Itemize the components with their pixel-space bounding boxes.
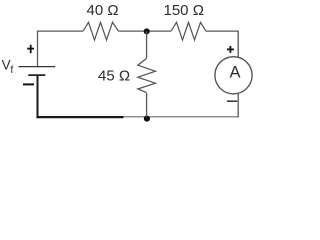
ammeter A circle: [215, 57, 252, 94]
wire top-middle: [119, 30, 172, 32]
svg-text:A: A: [229, 64, 240, 82]
wire top-right: [206, 31, 238, 57]
node junction bottom: [144, 116, 150, 122]
resistor R1 40ohm: [83, 22, 119, 40]
svg-text:45 Ω: 45 Ω: [98, 67, 130, 84]
ammeter plus sign: [227, 46, 234, 53]
svg-text:150 Ω: 150 Ω: [164, 2, 204, 19]
wire bottom-left: [36, 116, 123, 118]
battery Vf plus sign: [27, 45, 34, 53]
resistor R3 45ohm: [138, 58, 156, 92]
ammeter minus sign: [227, 100, 237, 102]
resistor R2 150ohm: [171, 22, 206, 40]
svg-text:40 Ω: 40 Ω: [87, 2, 119, 19]
wire middle lower vertical: [146, 93, 148, 117]
battery Vf minus sign: [23, 83, 34, 85]
svg-text:V: V: [2, 58, 11, 73]
wire right-lower vertical: [237, 93, 239, 117]
node junction top: [144, 28, 150, 34]
battery Vf bottom plate (-): [28, 74, 45, 76]
wire middle upper vertical: [146, 31, 148, 58]
wire top-left horizontal: [38, 31, 84, 66]
wire bottom-right: [123, 116, 239, 118]
battery Vf top plate (+): [19, 66, 56, 68]
svg-text:f: f: [10, 64, 13, 76]
wire left-lower vertical: [37, 75, 39, 118]
